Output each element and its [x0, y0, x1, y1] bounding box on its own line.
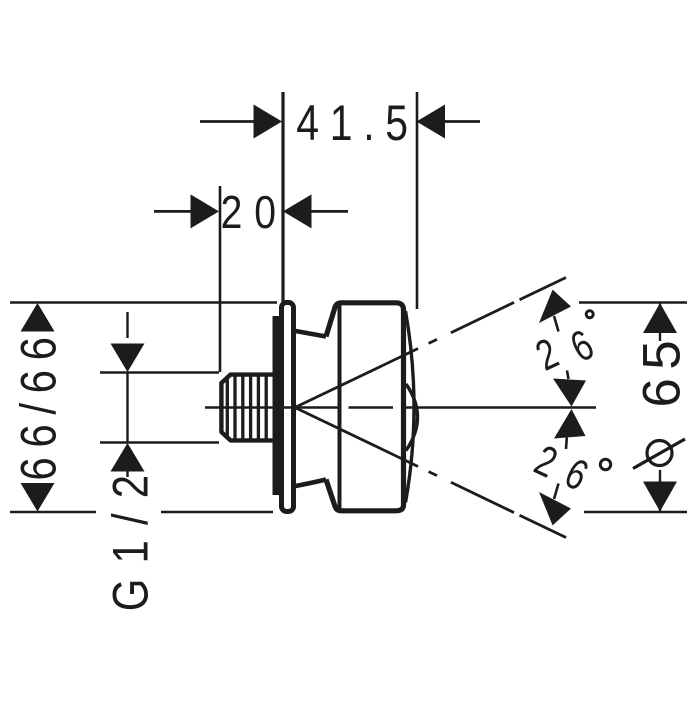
arrowhead diameter bottom: [643, 482, 677, 512]
extension line bottom-right horizontal y=512: [584, 511, 687, 513]
centerline horizontal y=407.5: [205, 406, 596, 408]
arrowhead 20 left: [191, 194, 220, 228]
wall bar behind escutcheon: [273, 316, 285, 495]
dimension text 20: [221, 187, 288, 239]
thread dimension line x=127.5: [126, 312, 128, 477]
svg-text:41.5: 41.5: [296, 95, 418, 151]
angle arc tail above bowtie: [567, 371, 569, 380]
dimension 41.5 leader left: [200, 120, 255, 123]
angle arc tail below bowtie: [565, 438, 568, 450]
arrowhead 20 right: [283, 194, 312, 228]
face outer arc: [406, 311, 415, 503]
extension line bottom-left horizontal y=512 (gap at G1/2 slash): [10, 511, 273, 513]
ray upper 26 degrees dash-dot: [286, 278, 566, 412]
sleeve top edge: [296, 331, 327, 337]
arrowhead thread down: [111, 344, 145, 373]
face nub arc: [406, 384, 418, 451]
body outline cone and cylinder: [326, 303, 404, 511]
arrowhead 66/66 down: [21, 483, 55, 512]
dimension 20 leader left: [154, 210, 193, 213]
arrowhead angle upper ray: [539, 290, 571, 323]
dimension 41.5 leader right: [444, 120, 480, 123]
thread nipple outline: [221, 375, 277, 441]
arrowhead 41.5 right: [417, 105, 446, 139]
arrowhead angle bowtie upper: [553, 379, 586, 407]
dimension 20 leader right: [311, 210, 348, 213]
dimension text 66/66: [10, 327, 66, 480]
svg-text:G1/2: G1/2: [102, 460, 158, 612]
dimension text 65: [633, 332, 692, 408]
extension line vertical x=417: [416, 92, 419, 309]
angle arc tail upper-ray arrow: [554, 316, 559, 332]
svg-text:65: 65: [633, 332, 692, 408]
extension line thread top y=372.5: [100, 371, 219, 373]
angle arc tail lower-ray arrow: [554, 484, 559, 500]
arrowhead thread up: [111, 443, 145, 472]
body junction line: [338, 304, 342, 510]
extension line vertical x=283: [281, 92, 284, 302]
diameter symbol circle: [647, 441, 672, 466]
extension line vertical x=220: [219, 186, 222, 372]
dimension text 41.5: [296, 95, 418, 151]
arrowhead 41.5 left: [254, 105, 283, 139]
arrowhead 66/66 up: [21, 303, 55, 332]
diameter 65 dimension line x=660: [659, 303, 661, 512]
svg-text:20: 20: [221, 187, 288, 239]
extension line top-right horizontal y=302.5: [579, 301, 687, 303]
diameter symbol slash: [633, 439, 685, 469]
extension line thread bottom y=442.5: [100, 441, 219, 443]
sleeve bottom edge: [296, 480, 327, 487]
extension line top-left horizontal y=302.5: [10, 301, 277, 303]
thread hatch lines: [227, 377, 266, 439]
angle text upper 26deg: [529, 329, 566, 381]
escutcheon plate edge-on: [282, 303, 294, 512]
angle text lower 26deg: [527, 436, 564, 488]
svg-text:66/66: 66/66: [10, 327, 66, 480]
arrowhead diameter top: [643, 303, 677, 333]
arrowhead angle bowtie lower: [554, 409, 586, 439]
dimension text G1/2: [102, 460, 158, 612]
ray lower 26 degrees dash-dot: [286, 403, 566, 537]
arrowhead angle lower ray: [539, 492, 571, 525]
